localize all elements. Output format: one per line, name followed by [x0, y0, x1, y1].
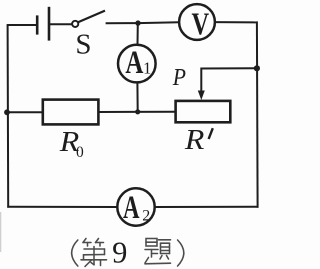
caption hanzi ti	[145, 239, 171, 264]
wire left edge	[7, 25, 10, 208]
svg-text:0: 0	[76, 144, 84, 161]
scan artifact streak	[0, 212, 1, 252]
wire node D to resistor R0	[7, 111, 43, 113]
wire slider P from node B	[201, 68, 256, 92]
slider arrowhead P	[198, 91, 205, 101]
svg-text:S: S	[75, 29, 91, 61]
battery positive plate	[48, 7, 51, 41]
ammeter A2 circle	[117, 188, 154, 225]
resistor R0 box	[43, 100, 99, 125]
wire bottom-left to ammeter A2	[7, 206, 117, 208]
node B junction dot	[254, 65, 260, 71]
caption (第 9 题)	[72, 236, 184, 269]
wire node A to voltmeter	[138, 21, 179, 24]
wire top-left to battery	[7, 24, 37, 26]
svg-text:A: A	[125, 45, 143, 81]
wire switch to node A	[106, 22, 138, 24]
wire ammeter A1 to node C	[136, 82, 138, 111]
svg-text:1: 1	[143, 58, 151, 77]
rheostat R' box	[176, 101, 231, 122]
caption digit 9	[112, 236, 127, 269]
caption close paren	[178, 240, 184, 266]
node D junction dot	[4, 109, 10, 115]
svg-text:A: A	[123, 190, 140, 226]
svg-text:P: P	[172, 65, 186, 91]
svg-text:2: 2	[142, 208, 150, 225]
node A junction dot	[135, 20, 140, 25]
wire node A down to ammeter A1	[137, 23, 139, 45]
svg-text:9: 9	[112, 236, 127, 269]
voltmeter V circle	[179, 4, 215, 40]
wire battery to switch	[50, 23, 72, 25]
caption open paren	[72, 240, 78, 266]
svg-text:R: R	[184, 124, 205, 156]
wire resistor R0 to node C to rheostat	[98, 111, 176, 113]
caption hanzi di	[81, 239, 107, 267]
wire voltmeter to top-right corner	[215, 21, 257, 23]
switch S pivot circle	[72, 21, 78, 27]
wire ammeter A2 to bottom-right	[155, 206, 259, 208]
svg-text:V: V	[192, 6, 210, 42]
ammeter A1 circle	[118, 45, 156, 83]
wire right edge	[256, 21, 259, 207]
switch S blade	[78, 11, 105, 23]
battery negative plate	[36, 15, 39, 34]
node C junction dot	[135, 109, 140, 114]
